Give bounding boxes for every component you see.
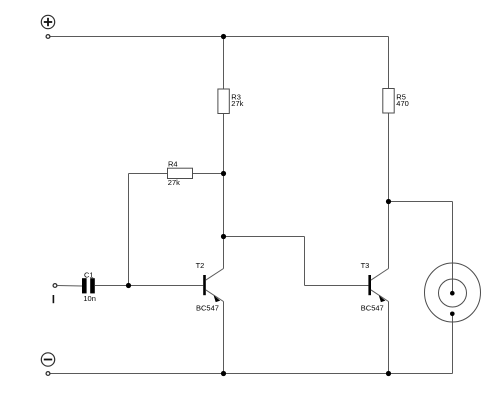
svg-text:R4: R4 [168, 160, 178, 169]
svg-text:BC547: BC547 [196, 303, 219, 312]
svg-text:BC547: BC547 [361, 303, 384, 312]
svg-text:T3: T3 [361, 261, 370, 270]
svg-text:10n: 10n [83, 294, 96, 303]
svg-text:T2: T2 [196, 261, 205, 270]
svg-text:470: 470 [396, 99, 409, 108]
svg-text:27k: 27k [168, 178, 180, 187]
svg-text:27k: 27k [231, 99, 243, 108]
svg-text:C1: C1 [84, 270, 94, 279]
